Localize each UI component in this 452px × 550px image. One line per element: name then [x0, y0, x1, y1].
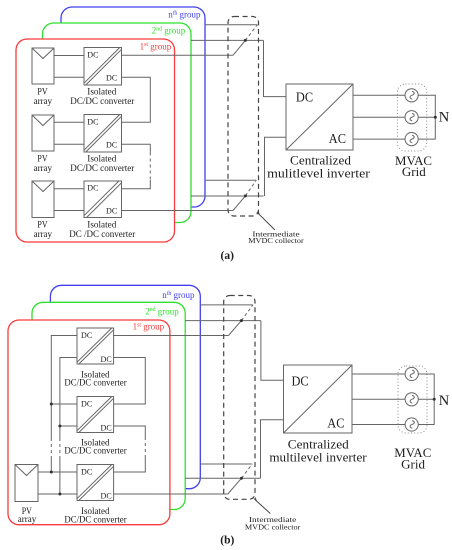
wire PV2-converter2 top	[54, 121, 84, 123]
svg-text:DC/DC converter: DC/DC converter	[70, 163, 134, 173]
wire PV3-converter3 bottom	[54, 210, 84, 212]
centralized multilevel inverter (a)	[286, 84, 353, 150]
svg-text:DC: DC	[87, 49, 98, 59]
svg-text:DC/DC converter: DC/DC converter	[64, 377, 126, 387]
svg-text:array: array	[34, 163, 53, 173]
AC source 3 (a)	[405, 133, 418, 146]
svg-text:nth group: nth group	[168, 10, 201, 20]
group box 2nd (green)	[43, 23, 192, 223]
svg-text:DC: DC	[106, 206, 117, 216]
MVAC grid dotted box (b)	[398, 366, 427, 433]
conv2- to conv3+ connector (b) with dash	[114, 426, 146, 437]
wire nth group +	[205, 24, 257, 26]
svg-text:PV: PV	[37, 153, 48, 163]
svg-text:AC: AC	[329, 131, 346, 146]
svg-text:DC/DC converter: DC/DC converter	[64, 514, 126, 524]
wire 1st group + (b)	[114, 335, 229, 337]
wire 2nd group +	[191, 39, 264, 41]
isolated DC/DC converter 2	[84, 115, 122, 153]
svg-text:DC/DC converter: DC/DC converter	[64, 446, 126, 456]
svg-text:DC: DC	[81, 399, 92, 409]
svg-text:PV: PV	[37, 220, 48, 230]
bus - (left) (b)	[60, 358, 77, 439]
bus to inverter (a) bottom	[265, 137, 287, 196]
svg-text:array: array	[34, 229, 53, 239]
svg-text:DC: DC	[106, 73, 117, 83]
isolated DC/DC converter 3	[84, 181, 122, 218]
wire PV2-converter2 bottom	[54, 143, 84, 145]
neutral wires (a)	[418, 95, 435, 139]
junction dot bus- PV (b)	[58, 493, 61, 496]
junction dot top (b)	[240, 319, 243, 322]
wire nth group -	[205, 179, 256, 181]
svg-text:AC: AC	[327, 415, 344, 430]
svg-text:DC: DC	[292, 374, 309, 389]
PV array 1	[32, 48, 54, 84]
intermediate MVDC collector box (a)	[228, 17, 259, 217]
svg-text:Isolated: Isolated	[87, 220, 116, 230]
junction dot top	[244, 39, 247, 42]
wire 1st group - (b)	[114, 493, 228, 495]
conv2 - wire (b)	[60, 425, 77, 427]
isolated DC/DC converter 2 (b)	[77, 397, 114, 433]
svg-text:DC: DC	[81, 330, 92, 340]
intermediate MVDC collector box (b)	[224, 296, 255, 500]
svg-text:Grid: Grid	[402, 164, 426, 179]
wire PV1-converter1 top	[54, 55, 84, 57]
AC source 2 (b)	[405, 393, 418, 406]
conv1- to conv2+ connector (b)	[114, 358, 146, 405]
junction dot bus- conv2 (b)	[58, 425, 61, 428]
svg-text:multilevel inverter: multilevel inverter	[269, 450, 367, 465]
bus diagonal bottom	[233, 196, 245, 211]
svg-text:(b): (b)	[220, 535, 234, 547]
svg-text:array: array	[18, 514, 37, 524]
svg-text:DC: DC	[101, 354, 112, 364]
svg-text:DC: DC	[106, 140, 117, 150]
AC phase wires (b)	[352, 373, 405, 375]
svg-text:DC: DC	[101, 423, 112, 433]
wire conv2- down (dash-dot continuation)	[122, 144, 151, 152]
wire nth group + (b)	[200, 304, 253, 306]
svg-text:DC: DC	[81, 467, 92, 477]
arrow to collector label (a)	[259, 214, 275, 230]
PV array 2	[32, 115, 54, 151]
wire 2nd group -	[191, 195, 264, 197]
svg-text:DC: DC	[87, 116, 98, 126]
junction dot bus+ conv2 (b)	[50, 403, 53, 406]
bus + (left) (b)	[51, 336, 77, 439]
bus diagonal bottom (b)	[228, 478, 242, 494]
group box nth (blue)	[61, 7, 205, 207]
wire nth group - (b)	[200, 463, 252, 465]
centralized multilevel inverter (b)	[284, 365, 353, 433]
PV array 3	[32, 181, 54, 218]
wire 2nd group - (b)	[185, 477, 260, 479]
PV bottom wire to conv3 (b)	[38, 493, 77, 495]
arrow to collector label (b)	[256, 501, 270, 514]
PV top wire to conv3 (b)	[38, 471, 77, 473]
junction dot bottom (b)	[240, 477, 243, 480]
svg-text:MVDC collector: MVDC collector	[245, 523, 301, 532]
svg-text:DC: DC	[101, 491, 112, 501]
wire conv1- to conv2+	[122, 77, 151, 122]
svg-text:PV: PV	[37, 86, 48, 96]
PV array (b)	[15, 465, 38, 502]
isolated DC/DC converter 1	[84, 48, 122, 86]
svg-text:Isolated: Isolated	[87, 86, 116, 96]
AC source 3 (b)	[405, 418, 418, 431]
bus to inverter (b) bottom	[261, 420, 284, 479]
isolated DC/DC converter 3 (b)	[77, 465, 114, 501]
wire PV1-converter1 bottom	[54, 76, 84, 78]
svg-text:DC: DC	[87, 182, 98, 192]
MVAC grid dotted box (a)	[397, 84, 426, 151]
svg-text:N: N	[439, 393, 450, 409]
bus to inverter (b) top	[261, 321, 284, 381]
junction dot bus+ PV (b)	[50, 471, 53, 474]
svg-text:DC/DC converter: DC/DC converter	[70, 96, 134, 106]
svg-text:(a): (a)	[220, 250, 234, 262]
node N dot (b)	[433, 398, 436, 401]
svg-text:Grid: Grid	[401, 456, 425, 471]
svg-text:DC: DC	[296, 89, 313, 104]
svg-text:Isolated: Isolated	[87, 153, 116, 163]
AC phase wires (a)	[353, 94, 405, 96]
wire conv1 out+ to collector	[122, 54, 234, 56]
conv2 + wire (b)	[51, 403, 77, 405]
bus diagonal top (b)	[229, 321, 242, 336]
AC source 2 (a)	[405, 111, 418, 124]
AC source 1 (b)	[405, 367, 418, 380]
group box 1st (red) b	[8, 320, 170, 525]
svg-text:mulitlevel inverter: mulitlevel inverter	[267, 165, 371, 180]
group box 2nd (green) b	[32, 302, 185, 509]
group box nth (blue) b	[50, 285, 200, 488]
group box 1st (red)	[16, 39, 175, 242]
isolated DC/DC converter 1 (b)	[77, 328, 114, 364]
junction dot bottom	[244, 194, 247, 197]
svg-text:MVDC collector: MVDC collector	[248, 236, 304, 245]
svg-text:N: N	[439, 110, 450, 126]
svg-text:nth group: nth group	[162, 290, 195, 300]
AC source 1 (a)	[405, 89, 418, 102]
bus to inverter (a) top	[264, 40, 287, 96]
svg-text:array: array	[34, 96, 53, 106]
wire PV3-converter3 top	[54, 188, 84, 190]
wire conv3- out to collector	[122, 210, 234, 212]
neutral wires (b)	[418, 374, 434, 425]
wire 2nd group + (b)	[185, 320, 261, 322]
node N dot (a)	[434, 116, 437, 119]
svg-text:DC /DC converter: DC /DC converter	[69, 229, 135, 239]
bus diagonal top	[233, 40, 245, 55]
